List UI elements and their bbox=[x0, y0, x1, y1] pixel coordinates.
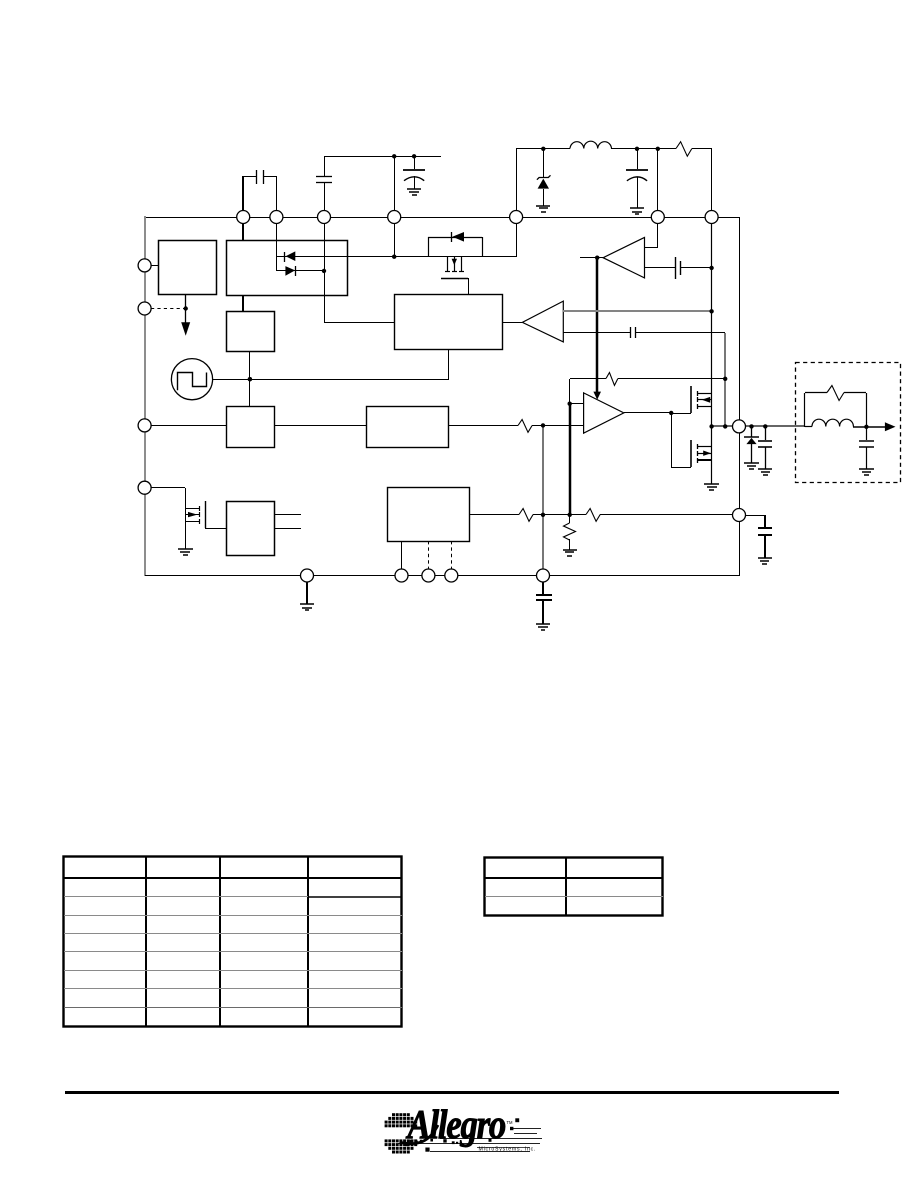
svg-text:MicroSystems, Inc.: MicroSystems, Inc. bbox=[479, 1147, 536, 1153]
svg-text:TM: TM bbox=[507, 1120, 514, 1125]
svg-text:Allegro: Allegro bbox=[406, 1102, 506, 1147]
